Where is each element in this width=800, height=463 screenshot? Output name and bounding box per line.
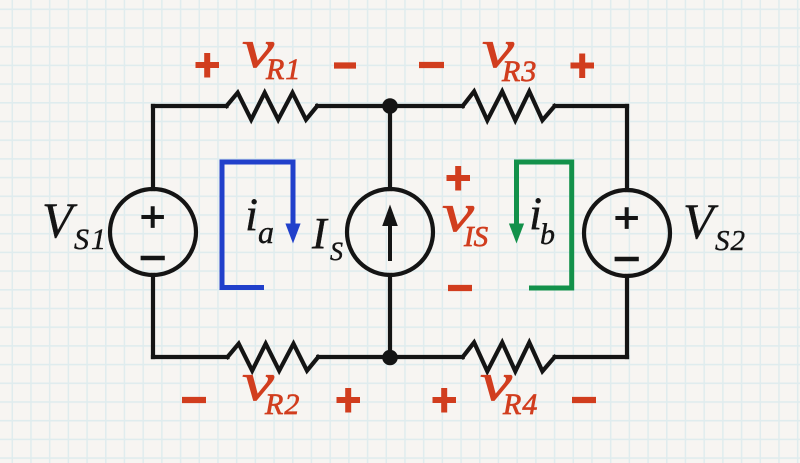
node B junction dot <box>382 350 398 366</box>
label v_IS <box>442 183 489 253</box>
mesh current loop i_b (green) <box>517 162 572 288</box>
svg-text:IS: IS <box>463 221 489 253</box>
wire node A to R3 <box>390 104 463 108</box>
wire node B to R4 <box>390 355 463 359</box>
svg-text:I: I <box>311 209 329 258</box>
wire right vertical bottom (VS2 to bottom rail) <box>625 276 629 357</box>
wire left vertical bottom (VS1 to bottom rail) <box>151 275 155 357</box>
i_b arrowhead <box>509 224 524 244</box>
v_IS minus sign <box>448 285 472 291</box>
wire node A to current source top <box>388 106 392 189</box>
v_R1 plus sign <box>196 53 220 78</box>
wire top left vertical (VS1 top to top rail) <box>151 106 155 189</box>
mesh current loop i_a (blue) <box>222 162 293 288</box>
label VS2 <box>683 193 746 257</box>
voltage source VS1 <box>110 189 196 275</box>
resistor R2 <box>228 344 319 371</box>
wire R4 to bottom right corner <box>555 355 627 359</box>
v_R1 minus sign <box>334 62 356 68</box>
resistor R1 <box>227 93 318 120</box>
svg-text:a: a <box>258 214 274 250</box>
resistor R3 <box>463 91 555 120</box>
current source IS <box>347 189 433 275</box>
voltage source VS2 <box>584 190 670 276</box>
label v_R4 <box>480 352 538 421</box>
resistor R4 <box>463 342 555 371</box>
v_R2 minus sign <box>182 397 206 403</box>
VS2 minus terminal <box>615 257 639 262</box>
v_R4 minus sign <box>572 397 596 403</box>
v_R3 plus sign <box>571 54 595 79</box>
wire top right vertical (top rail to VS2) <box>625 106 629 190</box>
wire R3 to top right corner <box>555 104 627 108</box>
svg-text:S1: S1 <box>74 223 108 256</box>
wire R1 to node A <box>317 104 390 108</box>
svg-text:R4: R4 <box>502 388 538 421</box>
svg-text:R1: R1 <box>265 53 301 86</box>
IS arrow <box>382 205 398 262</box>
svg-text:S: S <box>330 237 343 266</box>
VS2 plus terminal <box>615 207 638 229</box>
wire bottom rail left (to R2) <box>153 355 228 359</box>
svg-text:S2: S2 <box>715 225 746 257</box>
label i_b <box>529 188 555 251</box>
v_R3 minus sign <box>419 62 444 68</box>
svg-text:b: b <box>540 218 555 251</box>
v_IS plus sign <box>447 166 471 191</box>
label v_R1 <box>242 19 301 86</box>
svg-text:i: i <box>245 189 258 241</box>
label VS1 <box>42 192 108 256</box>
VS1 minus terminal <box>141 256 165 261</box>
i_a arrowhead <box>285 224 300 244</box>
label v_R2 <box>242 352 300 421</box>
wire R2 to node B <box>318 355 390 359</box>
label IS <box>311 209 343 266</box>
wire top rail left (to R1) <box>153 104 227 108</box>
svg-text:R3: R3 <box>501 55 537 88</box>
v_R2 plus sign <box>337 388 361 413</box>
VS1 plus terminal <box>141 206 164 228</box>
node A junction dot <box>382 98 398 114</box>
v_R4 plus sign <box>433 388 457 413</box>
wire current source bottom to node B <box>388 275 392 357</box>
label i_a <box>245 189 274 250</box>
label v_R3 <box>482 19 537 88</box>
svg-text:R2: R2 <box>264 388 300 421</box>
